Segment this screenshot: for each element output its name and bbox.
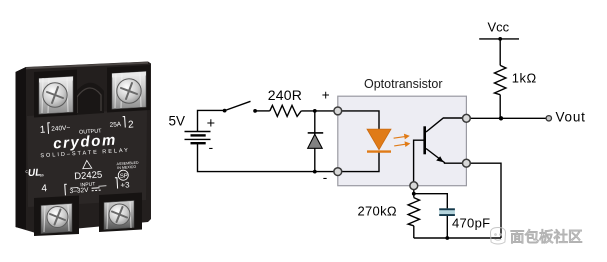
svg-text:3–32V: 3–32V bbox=[69, 187, 89, 195]
svg-text:+: + bbox=[207, 116, 215, 132]
svg-text:1kΩ: 1kΩ bbox=[512, 71, 537, 86]
svg-text:240V~: 240V~ bbox=[51, 125, 71, 133]
svg-text:270kΩ: 270kΩ bbox=[358, 204, 397, 219]
svg-text:-: - bbox=[323, 170, 328, 185]
svg-text:-: - bbox=[209, 139, 214, 155]
svg-text:+: + bbox=[322, 87, 330, 102]
svg-text:SP: SP bbox=[120, 173, 128, 179]
svg-text:Optotransistor: Optotransistor bbox=[364, 77, 443, 91]
svg-text:25A: 25A bbox=[109, 121, 122, 129]
svg-text:D2425: D2425 bbox=[74, 170, 103, 183]
svg-text:Vcc: Vcc bbox=[488, 20, 510, 35]
svg-text:Vout: Vout bbox=[556, 110, 586, 125]
svg-text:us: us bbox=[39, 172, 44, 177]
svg-text:面包板社区: 面包板社区 bbox=[510, 228, 583, 246]
svg-text:5V: 5V bbox=[169, 114, 186, 129]
svg-text:240R: 240R bbox=[268, 87, 302, 103]
svg-text:470pF: 470pF bbox=[452, 216, 490, 231]
svg-text:+3: +3 bbox=[120, 180, 130, 190]
